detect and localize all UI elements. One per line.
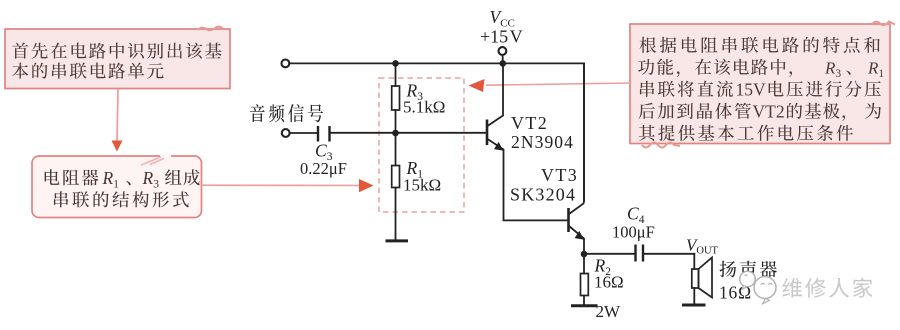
transistor VT3	[569, 63, 585, 254]
resistor R3	[392, 63, 400, 133]
wire base wire	[331, 132, 486, 134]
wire top supply rail	[290, 62, 584, 64]
capacitor C3	[290, 126, 330, 142]
annotation box A2	[32, 154, 202, 218]
svg-text:15kΩ: 15kΩ	[403, 176, 441, 195]
ground under R2	[573, 304, 597, 307]
svg-text:+15V: +15V	[480, 27, 523, 47]
power VCC terminal	[499, 47, 507, 63]
svg-text:2W: 2W	[596, 302, 622, 321]
svg-text:VT3: VT3	[541, 165, 578, 185]
node VCC junction	[500, 60, 507, 67]
terminal audio input	[282, 129, 290, 137]
svg-text:5.1kΩ: 5.1kΩ	[403, 98, 445, 117]
svg-text:16Ω: 16Ω	[594, 273, 624, 292]
label audio signal	[250, 104, 323, 122]
wire VT2 emitter to VT3 base	[504, 219, 567, 221]
label speaker yangshengqi	[720, 261, 777, 278]
resistor R2	[581, 254, 589, 305]
speaker	[692, 254, 712, 304]
watermark logo	[740, 271, 776, 304]
node emitter junction	[581, 251, 588, 258]
transistor VT2	[487, 63, 504, 220]
dashed highlight box around R3 R1	[379, 78, 464, 212]
terminal top-left input	[282, 60, 290, 68]
node base junction	[392, 130, 399, 137]
node R3 top junction	[392, 60, 399, 67]
svg-text:0.22μF: 0.22μF	[300, 159, 347, 178]
capacitor C4	[584, 245, 694, 262]
ground under R1	[387, 239, 407, 242]
svg-text:SK3204: SK3204	[510, 185, 576, 205]
arrow A1 to A2	[112, 89, 123, 152]
annotation box A3	[630, 22, 895, 148]
wire right rail	[583, 63, 585, 201]
svg-text:100μF: 100μF	[612, 223, 655, 242]
ground under speaker	[684, 304, 705, 307]
svg-text:VOUT: VOUT	[686, 236, 719, 257]
arrow A3 to dashed box	[469, 79, 631, 92]
svg-text:15V: 15V	[736, 80, 767, 100]
annotation box A1	[5, 27, 230, 89]
svg-text:2N3904: 2N3904	[511, 132, 574, 152]
resistor R1	[392, 133, 400, 240]
watermark text weixiurenjia	[782, 278, 872, 298]
arrow A2 to dashed box	[202, 179, 374, 192]
svg-text:VT2: VT2	[753, 102, 785, 122]
svg-text:VT2: VT2	[511, 113, 548, 133]
